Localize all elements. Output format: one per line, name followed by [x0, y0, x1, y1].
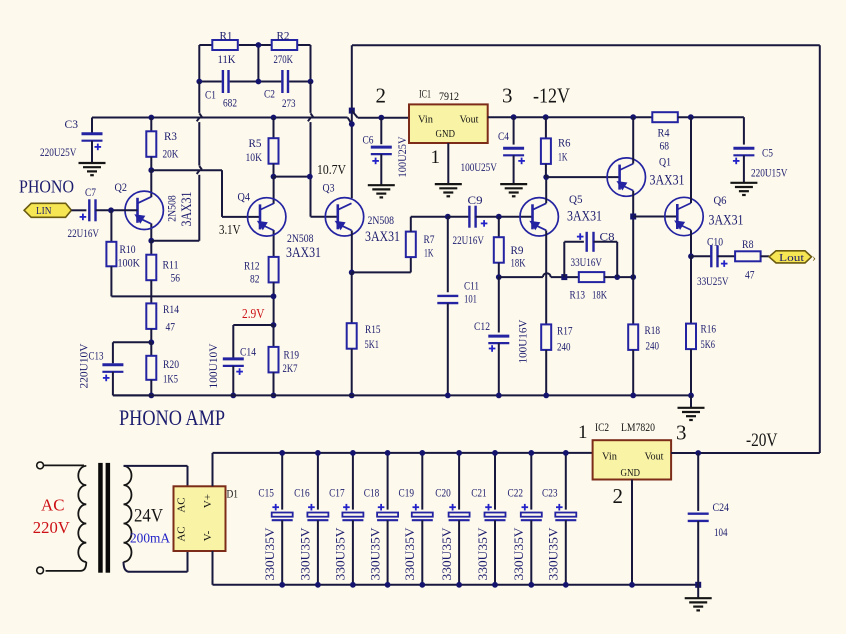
svg-text:D1: D1 [227, 487, 239, 501]
svg-text:Lout: Lout [779, 252, 804, 264]
svg-text:C10: C10 [707, 235, 723, 249]
svg-text:18K: 18K [511, 256, 526, 270]
svg-text:C23: C23 [542, 485, 558, 499]
svg-text:R1: R1 [220, 29, 233, 43]
svg-text:Q4: Q4 [238, 190, 251, 204]
svg-text:56: 56 [171, 271, 181, 285]
svg-text:100U25V: 100U25V [461, 160, 498, 174]
svg-text:Q2: Q2 [115, 180, 128, 194]
svg-text:GND: GND [436, 128, 456, 140]
svg-text:220V: 220V [33, 518, 70, 537]
svg-text:24V: 24V [134, 506, 163, 527]
svg-text:3AX31: 3AX31 [179, 192, 195, 227]
svg-text:C24: C24 [713, 500, 730, 514]
svg-text:2: 2 [613, 484, 624, 508]
svg-text:5K1: 5K1 [365, 337, 380, 351]
svg-text:220U15V: 220U15V [751, 166, 788, 180]
svg-text:C9: C9 [468, 193, 483, 207]
svg-text:C15: C15 [258, 485, 274, 499]
svg-text:2N508: 2N508 [167, 195, 179, 222]
svg-text:C2: C2 [264, 87, 275, 101]
svg-text:R5: R5 [249, 136, 262, 150]
svg-text:-12V: -12V [533, 84, 570, 108]
svg-text:22U16V: 22U16V [68, 226, 100, 240]
svg-text:68: 68 [660, 139, 670, 153]
svg-text:100U10V: 100U10V [206, 343, 220, 388]
svg-text:R12: R12 [244, 259, 260, 273]
svg-text:Q5: Q5 [569, 192, 583, 206]
svg-text:C7: C7 [85, 185, 96, 199]
svg-text:Vin: Vin [602, 451, 617, 463]
svg-text:C12: C12 [474, 319, 490, 333]
svg-text:AC: AC [41, 496, 65, 515]
svg-text:C6: C6 [363, 133, 374, 147]
svg-text:LIN: LIN [36, 206, 52, 217]
svg-text:3.1V: 3.1V [219, 223, 241, 238]
svg-text:200mA: 200mA [130, 531, 170, 546]
svg-text:100U25V: 100U25V [395, 136, 409, 177]
svg-text:1K: 1K [558, 150, 568, 164]
svg-text:330U35V: 330U35V [263, 528, 277, 581]
svg-text:Vout: Vout [460, 113, 479, 125]
svg-text:R2: R2 [277, 29, 290, 43]
svg-text:22U16V: 22U16V [453, 233, 485, 247]
svg-text:330U35V: 330U35V [547, 528, 561, 581]
svg-text:V-: V- [202, 530, 214, 541]
svg-text:C13: C13 [89, 349, 104, 363]
svg-text:AC: AC [176, 526, 188, 541]
svg-text:R18: R18 [645, 323, 661, 337]
svg-text:R13: R13 [570, 288, 586, 302]
svg-text:330U35V: 330U35V [368, 528, 382, 581]
svg-text:C20: C20 [435, 485, 451, 499]
svg-text:C17: C17 [329, 485, 345, 499]
svg-text:3AX31: 3AX31 [286, 245, 321, 261]
svg-text:1K5: 1K5 [163, 372, 178, 386]
svg-text:330U35V: 330U35V [440, 528, 454, 581]
svg-text:C4: C4 [498, 129, 509, 143]
svg-text:PHONO AMP: PHONO AMP [119, 405, 225, 430]
svg-text:1K: 1K [424, 246, 434, 260]
svg-text:2K7: 2K7 [283, 361, 298, 375]
svg-text:C3: C3 [65, 117, 79, 131]
svg-text:V+: V+ [202, 494, 214, 508]
svg-text:Q6: Q6 [714, 193, 727, 207]
svg-text:240: 240 [646, 339, 660, 353]
svg-text:›: › [812, 251, 816, 265]
svg-text:C22: C22 [508, 485, 524, 499]
svg-text:1: 1 [431, 147, 441, 168]
svg-text:2N508: 2N508 [287, 233, 314, 245]
svg-text:3AX31: 3AX31 [650, 173, 685, 189]
svg-text:C19: C19 [399, 485, 415, 499]
svg-text:Q3: Q3 [323, 181, 335, 195]
svg-text:3AX31: 3AX31 [365, 229, 400, 245]
svg-text:330U35V: 330U35V [476, 528, 490, 581]
svg-text:2N508: 2N508 [368, 215, 395, 227]
svg-text:C8: C8 [600, 230, 615, 244]
svg-text:10.7V: 10.7V [317, 163, 346, 178]
svg-text:R16: R16 [701, 322, 717, 336]
svg-text:R10: R10 [120, 242, 136, 256]
svg-text:240: 240 [557, 340, 571, 354]
svg-text:R8: R8 [742, 237, 754, 251]
svg-text:IC1: IC1 [419, 87, 431, 101]
svg-text:270K: 270K [274, 52, 294, 66]
svg-text:C11: C11 [464, 279, 479, 293]
svg-text:2.9V: 2.9V [242, 307, 265, 322]
svg-text:330U35V: 330U35V [299, 528, 313, 581]
svg-text:47: 47 [745, 268, 755, 282]
svg-text:R15: R15 [365, 322, 381, 336]
svg-text:PHONO: PHONO [19, 177, 74, 197]
svg-text:5K6: 5K6 [701, 337, 716, 351]
svg-text:C18: C18 [364, 485, 380, 499]
svg-text:2: 2 [376, 84, 387, 108]
svg-text:R20: R20 [163, 357, 179, 371]
svg-text:101: 101 [464, 292, 477, 306]
svg-text:220U10V: 220U10V [77, 343, 91, 388]
svg-text:104: 104 [714, 525, 728, 539]
svg-text:Vin: Vin [418, 113, 433, 125]
svg-text:C16: C16 [294, 485, 310, 499]
svg-text:R17: R17 [557, 324, 573, 338]
svg-text:R11: R11 [163, 258, 179, 272]
svg-text:1: 1 [578, 422, 588, 443]
svg-text:3AX31: 3AX31 [709, 213, 744, 229]
svg-text:3: 3 [676, 421, 687, 445]
svg-text:7912: 7912 [439, 89, 459, 103]
svg-text:330U35V: 330U35V [334, 528, 348, 581]
svg-text:82: 82 [250, 272, 260, 286]
svg-text:R4: R4 [658, 126, 670, 140]
svg-text:AC: AC [176, 497, 188, 512]
svg-text:C1: C1 [205, 88, 216, 102]
svg-text:R7: R7 [424, 232, 435, 246]
svg-text:100K: 100K [118, 256, 141, 270]
svg-text:100U16V: 100U16V [516, 319, 530, 363]
svg-text:20K: 20K [163, 147, 179, 161]
svg-text:33U16V: 33U16V [571, 255, 603, 269]
svg-text:R3: R3 [164, 129, 177, 143]
svg-text:11K: 11K [218, 52, 236, 66]
svg-text:3AX31: 3AX31 [567, 209, 602, 225]
svg-text:R6: R6 [558, 136, 571, 150]
svg-text:GND: GND [621, 467, 641, 479]
svg-text:-20V: -20V [746, 431, 778, 451]
svg-text:330U35V: 330U35V [403, 528, 417, 581]
svg-text:R14: R14 [163, 302, 179, 316]
svg-text:IC2: IC2 [595, 420, 609, 434]
svg-text:273: 273 [282, 96, 296, 110]
svg-text:C14: C14 [240, 345, 256, 359]
svg-text:R19: R19 [284, 348, 300, 362]
svg-text:Vout: Vout [645, 451, 664, 463]
svg-text:Q1: Q1 [659, 155, 671, 169]
svg-text:10K: 10K [246, 150, 263, 164]
svg-text:18K: 18K [592, 288, 607, 302]
svg-text:3: 3 [502, 84, 513, 108]
svg-text:220U25V: 220U25V [40, 145, 77, 159]
svg-text:C5: C5 [762, 146, 773, 160]
svg-text:C21: C21 [471, 485, 487, 499]
svg-text:33U25V: 33U25V [697, 274, 729, 288]
svg-text:47: 47 [166, 320, 176, 334]
svg-text:LM7820: LM7820 [621, 420, 655, 434]
svg-text:330U35V: 330U35V [512, 528, 526, 581]
svg-text:682: 682 [223, 96, 237, 110]
